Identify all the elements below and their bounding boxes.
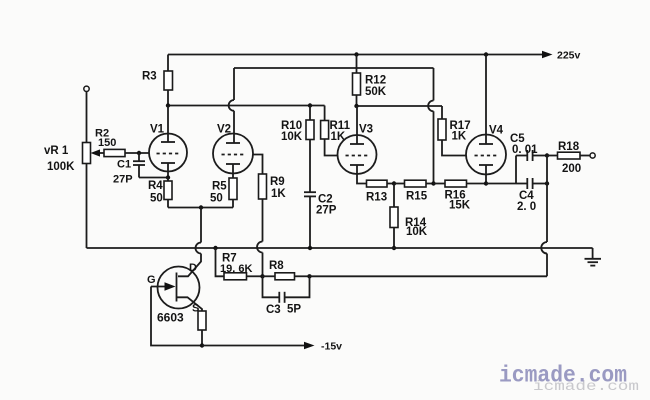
- transistor Q1 6603 JFET: [147, 262, 202, 325]
- wire second rail (V2 plate to R15/R16 node): [234, 67, 434, 69]
- tube V4: [466, 125, 506, 175]
- resistor R17 1K: [438, 106, 471, 156]
- tube V2: [213, 124, 253, 174]
- ground symbol: [585, 248, 602, 266]
- svg-text:10K: 10K: [281, 131, 303, 143]
- node R3 bottom / V1 plate junction: [166, 103, 170, 107]
- svg-text:0. 01: 0. 01: [512, 144, 538, 156]
- svg-text:V1: V1: [150, 124, 165, 136]
- wire V1 cathode lead: [167, 163, 169, 178]
- wire V4 cathode to caps: [486, 156, 516, 184]
- node caps right bottom: [545, 181, 549, 185]
- wire top +225v rail: [168, 50, 581, 62]
- tube V3: [338, 124, 377, 175]
- svg-text:V4: V4: [489, 125, 504, 137]
- capacitor C5 0.01: [510, 133, 547, 161]
- svg-text:vR 1: vR 1: [44, 145, 69, 157]
- wire V3 cathode lead: [357, 165, 367, 184]
- wire V3 plate lead: [356, 106, 358, 144]
- node R7/R8/R9/C3 junction: [260, 274, 264, 278]
- wire plate rail segment A: [168, 105, 325, 107]
- wire cathode bus V1-V2: [168, 207, 233, 209]
- wire -15v rail with arrow: [202, 341, 342, 353]
- node V4 cathode junction: [484, 181, 488, 185]
- svg-text:10K: 10K: [406, 226, 428, 238]
- svg-text:R8: R8: [269, 260, 284, 272]
- node R14 bottom on ground bus: [392, 246, 396, 250]
- svg-text:27P: 27P: [316, 205, 337, 217]
- svg-text:R18: R18: [558, 141, 580, 153]
- node C2 bottom on bus: [308, 246, 312, 250]
- wire V1 plate lead: [167, 106, 169, 143]
- node source resistor bottom on -15v rail: [200, 343, 204, 347]
- node R7 top on bus: [213, 246, 217, 250]
- node V1 cathode / R4 / C1 junction: [166, 175, 170, 179]
- capacitor C2 27P: [304, 192, 337, 248]
- node caps right top: [545, 153, 549, 157]
- node cathode tail junction: [199, 205, 203, 209]
- potentiometer vR1 100K: [44, 86, 91, 248]
- svg-text:V3: V3: [359, 124, 373, 136]
- resistor R8: [263, 260, 310, 280]
- capacitor C3 5P: [263, 276, 310, 316]
- svg-text:C3: C3: [266, 304, 281, 316]
- svg-text:R9: R9: [270, 176, 285, 188]
- svg-text:icmade.com: icmade.com: [499, 363, 627, 389]
- svg-text:27P: 27P: [113, 174, 133, 186]
- wire V2 plate drop with hop over rail A: [229, 68, 234, 143]
- svg-text:2. 0: 2. 0: [517, 201, 536, 213]
- wire gate to -15v rail: [151, 287, 202, 346]
- node R13/R14/R15 junction: [392, 181, 396, 185]
- capacitor C1 27P: [113, 153, 168, 186]
- node R8 right junction: [307, 274, 311, 278]
- resistor R11 1K: [321, 106, 351, 156]
- svg-text:6603: 6603: [157, 311, 184, 325]
- svg-text:1K: 1K: [452, 131, 467, 143]
- svg-text:50K: 50K: [365, 86, 387, 98]
- resistor R10 10K: [281, 103, 314, 192]
- svg-text:200: 200: [562, 163, 581, 175]
- svg-text:G: G: [147, 274, 156, 286]
- node R12 bottom / V3 plate: [354, 104, 358, 108]
- node V4 plate on top rail: [484, 52, 488, 56]
- svg-text:19. 6K: 19. 6K: [220, 263, 252, 275]
- svg-text:15K: 15K: [449, 200, 471, 212]
- svg-text:D: D: [189, 262, 197, 274]
- svg-text:5P: 5P: [287, 304, 301, 316]
- svg-text:R3: R3: [142, 71, 157, 83]
- wire ground bus: [87, 247, 593, 249]
- svg-text:R5: R5: [212, 181, 227, 193]
- resistor R15: [394, 180, 434, 202]
- node R15/R16/V2-plate junction: [431, 181, 435, 185]
- resistor R14 10K: [390, 184, 428, 249]
- svg-text:V2: V2: [217, 124, 231, 136]
- wire right drop to R15/R16 node with hop over rail B: [428, 68, 433, 184]
- svg-text:225v: 225v: [557, 50, 581, 62]
- resistor R3: [142, 55, 173, 106]
- watermark icmade.com: [499, 363, 639, 396]
- node V1 grid / C1 tap: [137, 151, 141, 155]
- wire V4 plate lead: [485, 55, 487, 145]
- resistor R12 50K: [353, 52, 387, 106]
- resistor source (unlabeled): [198, 311, 206, 346]
- svg-text:R15: R15: [406, 191, 428, 203]
- svg-text:100K: 100K: [47, 161, 75, 173]
- resistor R7 19.6K: [216, 248, 263, 280]
- resistor R9 1K (V2 grid to feedback node): [253, 155, 286, 277]
- svg-text:-15v: -15v: [321, 341, 342, 353]
- capacitor C4 2.0: [516, 178, 547, 213]
- wire output drop with hop over ground bus: [541, 156, 547, 277]
- resistor R4 50: [148, 178, 172, 208]
- resistor R13: [366, 180, 394, 203]
- wire feedback line to output: [310, 275, 548, 277]
- svg-text:50: 50: [150, 193, 163, 205]
- svg-text:R4: R4: [148, 180, 163, 192]
- svg-text:150: 150: [98, 137, 116, 149]
- svg-text:C1: C1: [117, 159, 131, 171]
- resistor R16 15K: [434, 180, 487, 211]
- resistor R5 50: [210, 178, 237, 208]
- resistor R18 200: [547, 141, 595, 175]
- svg-text:R13: R13: [366, 192, 387, 204]
- resistor R2 150 with wiper arrow into vR1: [91, 128, 150, 157]
- wire V2 cathode lead: [232, 164, 234, 178]
- wire plate rail segment B: [357, 105, 443, 107]
- wire V4 cathode lead: [485, 165, 487, 184]
- svg-text:1K: 1K: [271, 188, 286, 200]
- wire tail vertical with hop over ground bus: [178, 208, 201, 277]
- tube V1: [149, 124, 187, 172]
- svg-text:50: 50: [210, 193, 223, 205]
- svg-text:R12: R12: [365, 75, 386, 87]
